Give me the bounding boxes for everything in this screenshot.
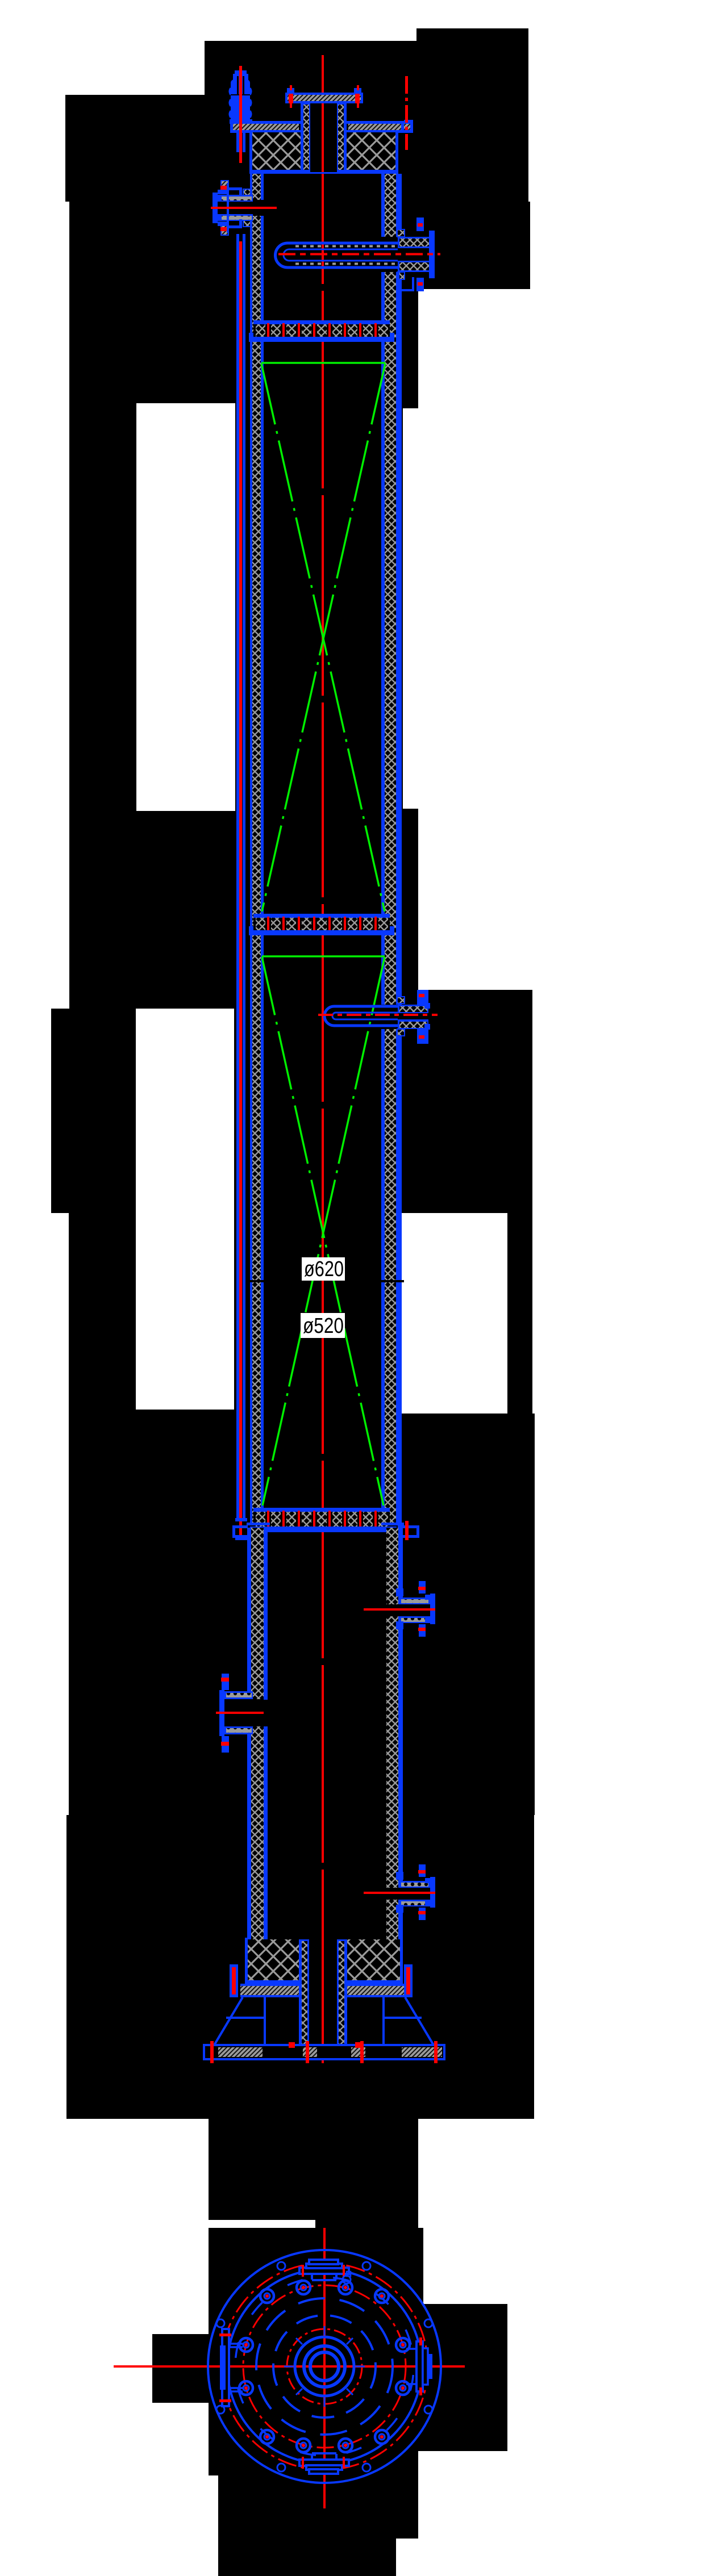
plan main bolts x12 [239,2281,410,2452]
body flange joint [232,1521,419,1540]
packing support grid G3 [250,1508,397,1532]
dip tube W2 [324,1006,420,1026]
plan stub nozzle left [219,2329,243,2406]
top head blind flange blocks [249,132,398,174]
nozzle N1 flange [285,94,363,103]
label D520 [301,1313,345,1338]
label D620 [302,1257,345,1281]
lower shell wall right [386,1528,403,1939]
dip tube W1 [276,243,430,267]
dip pipe W1 centerline [278,253,440,256]
external downcomer pipe (left) [235,73,247,1540]
bottom head blocks [245,1938,403,1984]
base ring [204,2041,444,2063]
plan bolt circle (outer, red) [221,2263,428,2470]
upper shell wall right [381,174,402,1525]
plan washer arc circle [235,2277,414,2456]
skirt support [214,1997,434,2045]
side nozzle N8 (lower right lower) [364,1864,435,1920]
plan manway bolt circle red [287,2329,362,2404]
packing support grid G1 [249,320,394,342]
plan manway neck circle [295,2337,354,2396]
upper shell wall left [250,174,264,1525]
green packing cone C1 [261,363,385,911]
bellows fitting N2 on cover [230,66,252,124]
skirt ring [240,1984,406,1997]
lower shell wall left [247,1528,268,1939]
background canvas tiles (black CAD viewport patches) [51,28,535,2576]
plan bolt circle (main, red) [243,2285,406,2448]
side nozzle N3 (upper left) [211,181,277,235]
dip pipe W1 nozzle N4 (upper right) [397,218,435,291]
plan stub nozzle bottom [299,2453,349,2474]
bottom outlet pipe [299,1939,347,2063]
centerline vessel axis [322,55,324,2063]
svg-text:ø520: ø520 [303,1314,344,1338]
plan stub nozzle top [299,2260,351,2284]
dip pipe W2 centerline [318,1014,438,1016]
side nozzle N7 (lower left) [216,1674,264,1753]
plan manway tick marks x8 [284,2326,365,2407]
plan outer flange circle [208,2250,441,2483]
side nozzle N6 (lower right upper) [364,1581,435,1637]
svg-text:ø620: ø620 [304,1257,344,1281]
plan gasket circle dashed outer [256,2298,393,2435]
head side bolts [230,1964,413,1997]
nozzle centerline (top right auxiliary) [405,76,408,150]
plan stub nozzle right [406,2337,432,2395]
top cover plate [230,120,413,133]
plan inner flange circle [227,2269,422,2464]
plan gasket circle dashed inner [273,2315,376,2418]
dip pipe W2 nozzle N5 (mid right) [397,990,430,1044]
plan crosshair centerlines [114,2365,465,2368]
top center nozzle N1 [285,85,363,172]
packing support grid G2 [249,914,394,935]
green packing cone C2 [262,956,385,1506]
plan center pipe ring [304,2346,345,2387]
plan rim holes x8 [216,2262,432,2472]
girth weld seam [248,1280,404,1282]
white paste-gaps inside black field [136,403,235,1410]
